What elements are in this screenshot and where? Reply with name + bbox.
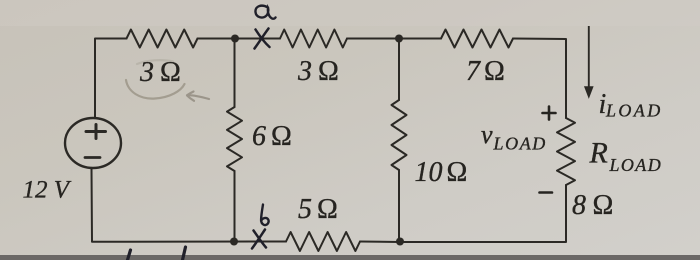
voltage source V1 plus sign <box>86 125 106 139</box>
pencil smudge circling 3ohm label <box>126 60 185 98</box>
voltage source V1 minus sign <box>85 156 100 159</box>
svg-text:8: 8 <box>572 190 586 221</box>
label 10 ohm for R7 <box>415 157 468 188</box>
svg-text:Ω: Ω <box>271 121 292 152</box>
junction dot bottom of 6ohm branch <box>230 238 238 246</box>
resistor R5 5ohm bottom <box>286 232 360 251</box>
wire 10ohm branch lower <box>398 170 400 242</box>
wire R2 to R3 <box>347 38 441 40</box>
wire 6ohm branch lower <box>234 171 236 242</box>
resistor R2 3ohm <box>280 30 347 48</box>
resistor R1 3ohm top-left <box>127 30 198 48</box>
label 12 V source value <box>23 177 72 204</box>
voltage source V1 circle <box>65 118 121 168</box>
wire 10ohm branch upper <box>398 39 400 101</box>
label 8 ohm for RLOAD <box>572 190 613 221</box>
label 6 ohm for R4 <box>252 121 292 152</box>
junction dot top of 10ohm branch <box>395 35 403 43</box>
svg-text:12 V: 12 V <box>23 177 72 204</box>
handwritten X mark at node b <box>252 230 266 249</box>
svg-text:10: 10 <box>415 157 443 188</box>
wire R1 to R2 through node a <box>198 38 281 40</box>
junction dot bottom of 10ohm branch <box>396 238 404 246</box>
wire RLOAD bottom to bottom-right corner <box>400 185 566 242</box>
handwritten X mark at node a <box>255 29 270 49</box>
svg-text:Ω: Ω <box>317 194 338 225</box>
label iLOAD <box>599 89 663 121</box>
wire top-left from source to R1 <box>95 39 127 119</box>
handwritten node label a <box>255 6 275 19</box>
junction dot top of 6ohm branch <box>231 35 239 43</box>
svg-text:Ω: Ω <box>593 190 614 221</box>
svg-text:R: R <box>589 137 608 170</box>
svg-text:Ω: Ω <box>318 56 339 87</box>
svg-text:Ω: Ω <box>484 56 505 87</box>
minus sign polarity vLOAD <box>540 191 553 194</box>
label 7 ohm for R3 <box>466 56 505 87</box>
svg-text:5: 5 <box>298 194 312 225</box>
label vLOAD <box>481 120 547 154</box>
resistor RLOAD 8ohm <box>557 118 575 185</box>
handwritten node label b <box>261 205 269 226</box>
svg-text:7: 7 <box>466 56 481 87</box>
label 3 ohm for R2 <box>297 56 339 87</box>
current arrow iLOAD <box>585 26 593 98</box>
svg-text:LOAD: LOAD <box>493 134 547 154</box>
svg-text:Ω: Ω <box>160 57 181 88</box>
plus sign polarity vLOAD <box>543 107 556 120</box>
svg-text:3: 3 <box>297 56 312 87</box>
svg-text:LOAD: LOAD <box>605 101 663 121</box>
svg-text:v: v <box>481 120 493 149</box>
svg-text:LOAD: LOAD <box>609 155 663 175</box>
label RLOAD <box>589 137 663 176</box>
resistor R4 6ohm <box>227 107 242 171</box>
wire bottom mid segment node b <box>360 241 400 244</box>
wire R3 to top-right corner <box>513 39 566 119</box>
stray pen tick 2 below bottom wire <box>183 247 186 260</box>
label 5 ohm for R5 <box>298 194 338 225</box>
resistor R3 7ohm <box>441 30 513 48</box>
wire 6ohm branch upper <box>234 39 236 108</box>
pencil arrow-curl mark <box>187 92 209 101</box>
svg-text:3: 3 <box>139 57 154 88</box>
svg-text:Ω: Ω <box>447 157 468 188</box>
svg-text:6: 6 <box>252 121 266 152</box>
stray pen tick 1 below bottom wire <box>128 250 131 260</box>
wire bottom-left from 5ohm to source <box>92 168 287 242</box>
label 3 ohm for R1 <box>139 57 181 88</box>
resistor R7 10ohm <box>392 100 407 170</box>
